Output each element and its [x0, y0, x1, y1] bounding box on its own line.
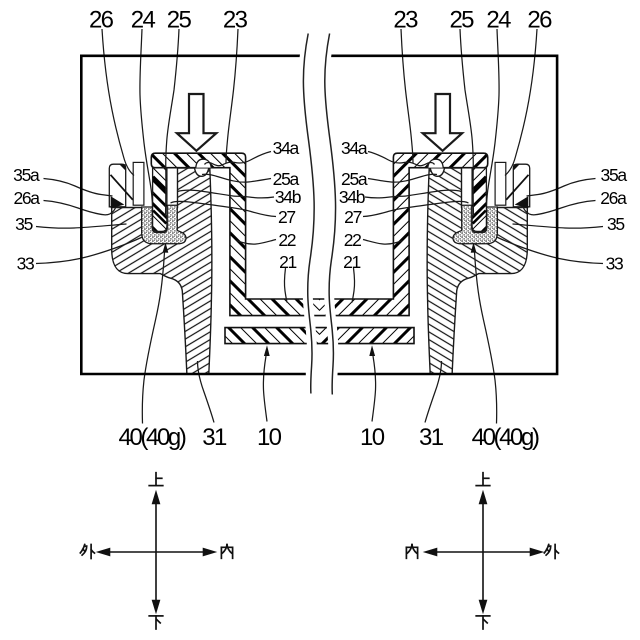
svg-text:33: 33 — [17, 254, 34, 274]
svg-text:25: 25 — [167, 7, 192, 34]
svg-text:35a: 35a — [601, 165, 628, 185]
svg-text:34a: 34a — [341, 138, 368, 158]
svg-text:24: 24 — [486, 7, 511, 34]
svg-text:35: 35 — [607, 214, 624, 234]
svg-text:40(40g): 40(40g) — [472, 424, 539, 451]
svg-text:27: 27 — [344, 207, 361, 227]
svg-text:34a: 34a — [273, 138, 300, 158]
svg-text:34b: 34b — [275, 187, 301, 207]
svg-text:22: 22 — [278, 230, 295, 250]
svg-text:25a: 25a — [273, 169, 300, 189]
svg-text:27: 27 — [278, 207, 295, 227]
svg-text:31: 31 — [419, 424, 444, 451]
svg-text:10: 10 — [360, 424, 385, 451]
svg-text:26a: 26a — [600, 188, 627, 208]
svg-text:40(40g): 40(40g) — [119, 424, 186, 451]
svg-text:26a: 26a — [13, 188, 40, 208]
svg-text:23: 23 — [223, 7, 248, 34]
svg-text:33: 33 — [606, 254, 623, 274]
svg-text:25: 25 — [449, 7, 474, 34]
svg-text:26: 26 — [89, 7, 114, 34]
svg-text:21: 21 — [279, 252, 296, 272]
svg-text:10: 10 — [257, 424, 282, 451]
svg-text:31: 31 — [202, 424, 227, 451]
svg-text:26: 26 — [527, 7, 552, 34]
svg-text:22: 22 — [344, 230, 361, 250]
svg-text:35a: 35a — [13, 165, 40, 185]
svg-text:24: 24 — [131, 7, 156, 34]
svg-text:21: 21 — [343, 252, 360, 272]
svg-text:23: 23 — [393, 7, 418, 34]
svg-text:35: 35 — [15, 214, 32, 234]
svg-text:25a: 25a — [341, 169, 368, 189]
svg-text:34b: 34b — [339, 187, 365, 207]
